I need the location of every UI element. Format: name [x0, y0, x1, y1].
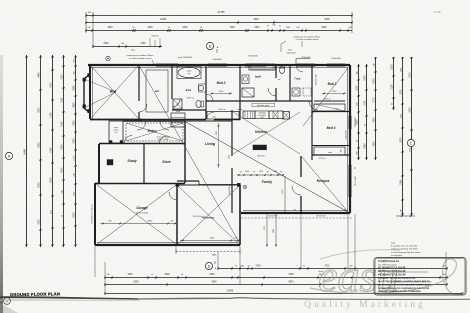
- section marker C: [407, 139, 414, 146]
- top dim end risers: [85, 12, 87, 33]
- wall entry front: [123, 120, 185, 122]
- wall store right: [184, 121, 186, 183]
- vert dims right of alfresco: [266, 214, 268, 247]
- dim row bottom 1: [105, 277, 447, 279]
- diag bay ray a: [84, 79, 116, 92]
- diag living-family a: [186, 122, 348, 212]
- wall inner face bottom family: [243, 210, 348, 212]
- dim chain left total 16440: [26, 55, 28, 247]
- wall ens bottom: [172, 109, 206, 111]
- door arc hall kitchen: [206, 94, 213, 101]
- exterior wall bottom family-rumpus: [241, 212, 350, 214]
- note box: [374, 258, 466, 296]
- wall corridor north kitchen: [206, 100, 276, 102]
- robe bed2: [207, 112, 239, 120]
- scan artifact bottom-left dark smudge: [0, 296, 138, 299]
- bath tub: [249, 64, 275, 70]
- dim chain right outer b: [393, 57, 395, 110]
- eave dashed bottom right: [241, 217, 352, 219]
- scan artifact left edge shadow: [0, 55, 3, 313]
- diag entry x: [126, 123, 183, 141]
- ens shower: [173, 99, 182, 109]
- wall garage right: [176, 184, 178, 246]
- dim row left 2500/240/4790: [93, 46, 162, 48]
- ens basin: [198, 85, 203, 90]
- diag alfresco a: [178, 186, 239, 244]
- wall wir left: [138, 65, 140, 101]
- porch outline: [109, 121, 123, 143]
- ens spa bath: [178, 67, 200, 77]
- bay window bed1: [84, 74, 90, 113]
- alfresco top line: [177, 184, 240, 186]
- ldry door arc: [296, 65, 303, 72]
- wall study-store bottom: [95, 183, 185, 185]
- diag bed1 a: [91, 66, 138, 118]
- scan artifact bottom horizontal line: [138, 297, 470, 300]
- wall bed2 right: [239, 65, 241, 120]
- exterior wall bed1 left: [89, 65, 91, 119]
- door arc bed2: [207, 112, 215, 120]
- wall wc ldry south: [276, 100, 312, 102]
- exterior wall study left: [98, 144, 100, 183]
- window right wall seg2: [349, 165, 352, 197]
- exterior wall garage left: [94, 183, 96, 245]
- window top wall seg4: [297, 64, 315, 67]
- wall bath right: [275, 65, 277, 78]
- dim chain right inner b: [366, 64, 368, 160]
- exterior wall alfresco right: [239, 185, 241, 245]
- kitchen fridge: [283, 112, 290, 120]
- diag kitchen b: [233, 112, 300, 154]
- door arc wir: [139, 104, 147, 112]
- kitchen pantry: [243, 111, 255, 119]
- window top wall seg3: [245, 64, 266, 67]
- wall bed1 bottom: [90, 119, 142, 121]
- window right wall seg1: [349, 116, 352, 129]
- riser lines house to bottom dims: [94, 246, 96, 277]
- wall study-store divider: [143, 144, 145, 184]
- alfresco under dim: [176, 251, 240, 253]
- wall living top: [185, 120, 232, 122]
- window top wall seg2: [208, 64, 227, 67]
- exterior wall right: [349, 65, 351, 213]
- small riser cluster near 4790: [149, 38, 151, 47]
- door arc garage internal: [169, 192, 177, 200]
- dim chain right long a: [402, 57, 404, 216]
- wall family-rumpus divider: [300, 156, 302, 177]
- wall inner face bed1 left: [91, 67, 93, 119]
- dim chain left col4: [63, 55, 65, 247]
- alfresco posts: [176, 183, 179, 186]
- door arc store: [159, 137, 166, 144]
- wall wir-ens divider: [171, 65, 173, 99]
- dim row bottom partial: [218, 268, 447, 270]
- living internal dim 3010: [218, 123, 220, 168]
- wall ldry right: [311, 65, 313, 160]
- dim row bottom 2: [105, 284, 447, 286]
- wall inner face right: [347, 67, 349, 211]
- section marker A left: [5, 152, 12, 159]
- dim chain left col5: [75, 55, 77, 247]
- dim row bottom 3: [105, 293, 462, 295]
- window top wall seg5: [327, 64, 345, 67]
- dim chain right long b: [411, 57, 413, 216]
- diag bed3: [303, 68, 348, 126]
- diag bay ray b: [84, 92, 116, 108]
- dim row total 21785: [86, 15, 352, 17]
- dim chain left col2: [40, 55, 42, 247]
- wall bed4-rumpus: [312, 154, 350, 156]
- door arc bed3: [309, 101, 318, 110]
- wall hall south of bed row: [139, 119, 206, 121]
- pier study west wall: [107, 160, 113, 166]
- ens wc: [196, 101, 201, 108]
- wir shelving: [146, 70, 168, 112]
- kitchen bench sink: [269, 111, 283, 119]
- door arc bath: [268, 88, 276, 96]
- robe bed4: [312, 145, 350, 147]
- wall living south: [177, 180, 199, 182]
- section marker B: [206, 42, 213, 49]
- family fan circle: [243, 185, 247, 189]
- wall inner face garage bottom: [97, 242, 238, 244]
- wc toilet: [279, 67, 284, 74]
- exterior wall bottom garage-alfresco: [95, 244, 240, 246]
- dim row 12460/2990/6335: [86, 22, 352, 24]
- section marker D: [205, 262, 212, 269]
- robe bed3: [314, 104, 345, 111]
- dim chain right inner a: [358, 64, 360, 160]
- diag bed1 b: [91, 66, 138, 118]
- diag alfresco b: [178, 186, 239, 244]
- diag kitchen a: [233, 112, 300, 154]
- wall study-store top: [99, 143, 185, 145]
- dim chain left col3: [52, 55, 54, 247]
- wall kitchen-family left: [231, 110, 233, 156]
- ldry steps: [303, 88, 311, 96]
- door arc study: [124, 136, 132, 144]
- entry recessed ceiling dashed: [126, 123, 183, 141]
- title ground floor plan: [10, 291, 60, 297]
- steps niche entry: [171, 113, 185, 127]
- watermark script: [310, 250, 464, 301]
- kitchen island dark: [253, 145, 267, 150]
- exterior wall top: [88, 64, 350, 66]
- diag wir-entry long: [140, 67, 240, 244]
- wall inner face top: [90, 67, 348, 69]
- diag garage a: [97, 185, 176, 244]
- door arc family: [292, 186, 301, 195]
- bath vanity: [242, 75, 249, 84]
- dim chain right outer a: [375, 57, 377, 160]
- diag garage b: [97, 185, 176, 244]
- wall ens right: [205, 65, 207, 119]
- right chains bottom tie: [396, 215, 415, 217]
- bath shower: [242, 88, 254, 97]
- door arc ens2: [172, 99, 180, 107]
- vent circle above wall: [106, 56, 110, 60]
- diag rumpus: [302, 157, 348, 212]
- section marker A bottom left: [4, 298, 11, 305]
- door arc entry double: [137, 121, 146, 130]
- wall wc right: [289, 65, 291, 101]
- dim row detailed top: [86, 30, 352, 32]
- window top wall seg1: [156, 64, 178, 67]
- ldry tub: [292, 88, 300, 96]
